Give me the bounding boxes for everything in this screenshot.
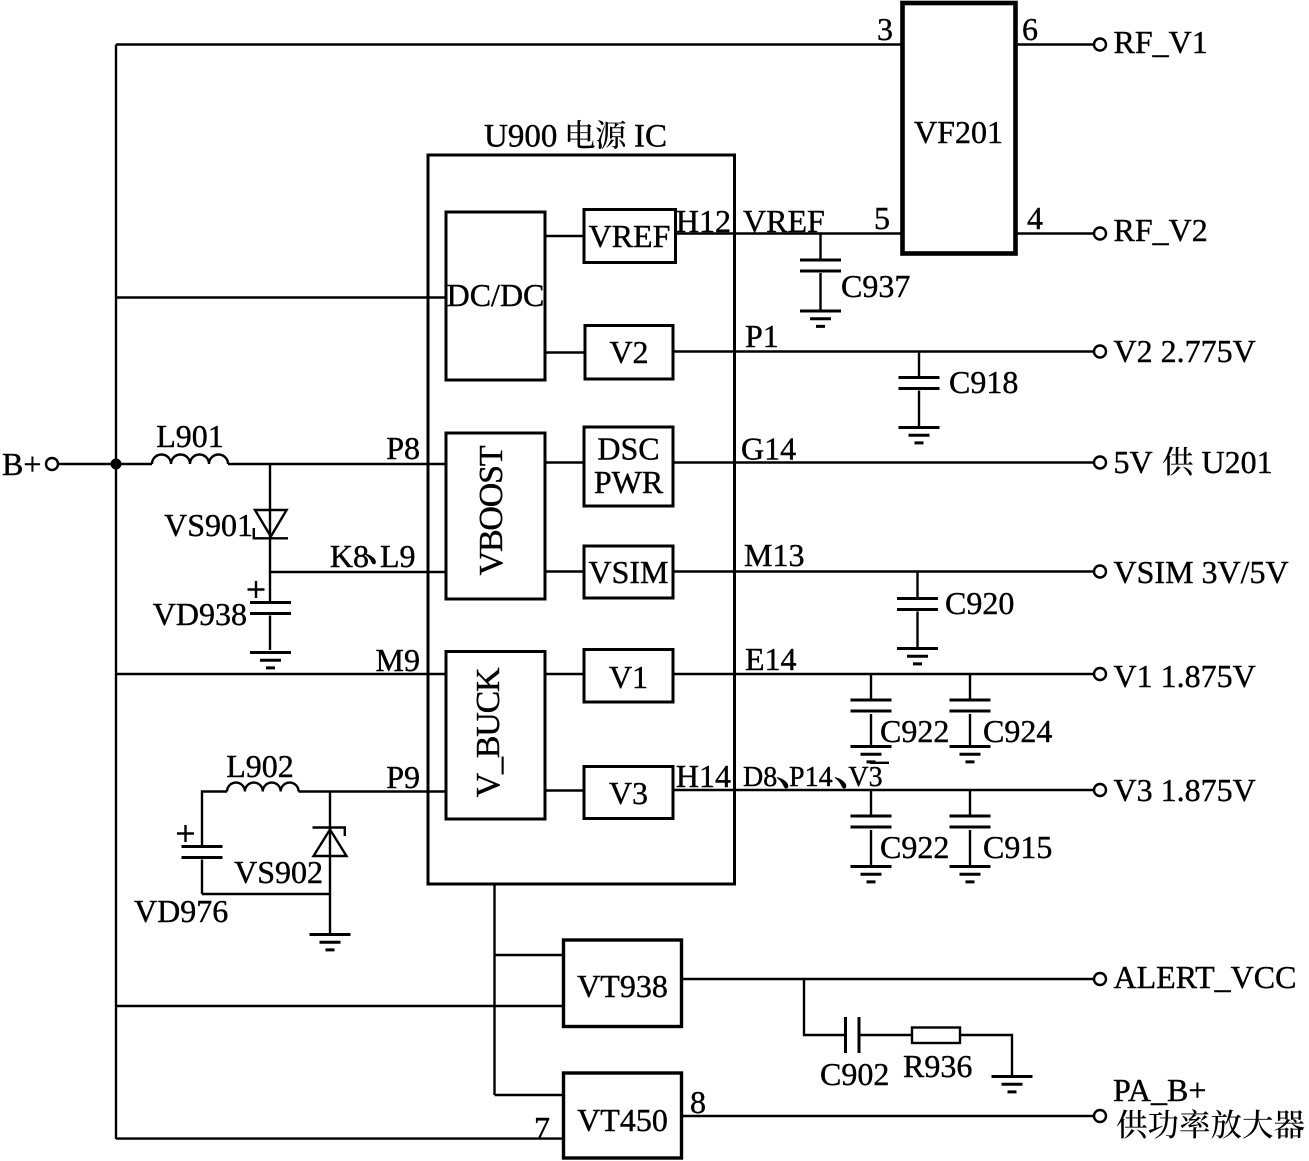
wire V3 to output H14 bbox=[673, 758, 1094, 794]
wire V_BUCK to V1 bbox=[545, 673, 584, 675]
transistor VT450 bbox=[564, 1073, 682, 1158]
svg-text:V2 2.775V: V2 2.775V bbox=[1114, 333, 1256, 369]
svg-text:DC/DC: DC/DC bbox=[447, 277, 545, 313]
ground C922 V3 bbox=[851, 867, 892, 882]
ground C924 bbox=[950, 747, 991, 762]
wire stem to VT450 pin bbox=[495, 1094, 564, 1096]
wire U900 bottom stem bbox=[493, 884, 495, 1095]
svg-text:VREF: VREF bbox=[743, 203, 825, 239]
block V2 bbox=[585, 326, 673, 380]
svg-text:DSC: DSC bbox=[597, 431, 659, 467]
ground R936 bbox=[992, 1077, 1033, 1092]
svg-text:V1: V1 bbox=[609, 659, 648, 695]
block DSC PWR bbox=[584, 427, 673, 506]
svg-text:U900: U900 bbox=[484, 119, 557, 155]
svg-text:VBOOST: VBOOST bbox=[473, 445, 510, 575]
svg-text:VS902: VS902 bbox=[234, 854, 323, 890]
svg-text:H14: H14 bbox=[676, 758, 731, 794]
svg-text:IC: IC bbox=[634, 119, 667, 155]
ground C937 bbox=[800, 311, 841, 326]
svg-text:E14: E14 bbox=[745, 641, 797, 677]
node V2 output bbox=[1094, 346, 1106, 358]
block V1 bbox=[584, 650, 673, 703]
wire bottom rail pin 7 bbox=[116, 1110, 563, 1146]
wire VBOOST to DSC PWR bbox=[545, 461, 584, 463]
wire DC/DC to VREF bbox=[545, 235, 584, 237]
svg-text:PWR: PWR bbox=[594, 464, 664, 500]
svg-text:M9: M9 bbox=[376, 642, 420, 678]
svg-text:V3: V3 bbox=[609, 775, 648, 811]
svg-text:V3: V3 bbox=[848, 762, 882, 793]
inductor L901 bbox=[152, 418, 228, 464]
capacitor C920 bbox=[897, 572, 1014, 648]
svg-text:VD976: VD976 bbox=[134, 893, 228, 929]
capacitor C918 bbox=[899, 352, 1019, 427]
svg-text:6: 6 bbox=[1022, 11, 1038, 47]
IC U900 power IC outline bbox=[428, 119, 735, 885]
svg-text:VREF: VREF bbox=[589, 218, 671, 254]
ground VD938 bbox=[250, 653, 291, 668]
node V3 output bbox=[1094, 784, 1106, 796]
node VSIM output bbox=[1094, 566, 1106, 578]
block DC/DC bbox=[446, 212, 545, 380]
svg-text:G14: G14 bbox=[741, 431, 796, 467]
svg-text:C937: C937 bbox=[841, 268, 910, 304]
wire pin M9 bbox=[116, 642, 446, 678]
wire C902 branch bbox=[804, 979, 844, 1035]
capacitor C937 bbox=[800, 234, 910, 310]
wire L902 left leg bbox=[202, 792, 227, 846]
capacitor VD938 (polarized) bbox=[153, 581, 291, 650]
wire pin P9 bbox=[299, 759, 446, 795]
diode VS901 bbox=[164, 507, 288, 543]
svg-text:PA_B+: PA_B+ bbox=[1113, 1072, 1206, 1108]
block VBOOST bbox=[446, 433, 545, 599]
wire main left vertical rail bbox=[115, 45, 117, 1140]
block VREF bbox=[584, 210, 676, 263]
wire top rail to VF201 pin 3 bbox=[116, 43, 902, 45]
svg-text:V2: V2 bbox=[609, 334, 648, 370]
svg-text:3: 3 bbox=[877, 11, 893, 47]
svg-text:D8: D8 bbox=[743, 762, 777, 793]
svg-text:U201: U201 bbox=[1202, 444, 1273, 480]
wire V_BUCK to V3 bbox=[545, 789, 584, 791]
svg-text:C918: C918 bbox=[949, 364, 1018, 400]
wire L901 to pin P8 bbox=[228, 430, 446, 466]
ground C918 bbox=[899, 428, 940, 443]
transistor VT938 bbox=[564, 940, 682, 1027]
svg-text:VSIM: VSIM bbox=[588, 554, 668, 590]
svg-text:7: 7 bbox=[534, 1110, 550, 1146]
block V_BUCK bbox=[446, 652, 545, 820]
wire VD976 bottom to VS902 bbox=[202, 893, 330, 895]
wire B+ to L901 bbox=[58, 463, 152, 465]
wire VS902 branch from P9 bbox=[329, 792, 331, 934]
wire left rail to VT938 pin b bbox=[116, 1005, 563, 1007]
svg-text:ALERT_VCC: ALERT_VCC bbox=[1114, 959, 1297, 995]
svg-text:B+: B+ bbox=[2, 446, 41, 482]
svg-text:V_BUCK: V_BUCK bbox=[470, 667, 507, 797]
wire V2 to output P1 bbox=[673, 318, 1094, 354]
wire V1 to output E14 bbox=[673, 641, 1094, 677]
svg-text:5: 5 bbox=[874, 200, 890, 236]
node 5V output bbox=[1094, 457, 1106, 469]
pin 4 wire bbox=[1016, 200, 1095, 236]
svg-text:M13: M13 bbox=[744, 537, 804, 573]
node B+ terminal bbox=[2, 446, 58, 482]
svg-text:C924: C924 bbox=[983, 713, 1052, 749]
ground C915 bbox=[950, 867, 991, 882]
svg-text:P1: P1 bbox=[745, 318, 779, 354]
svg-text:K8: K8 bbox=[330, 538, 369, 574]
svg-text:C902: C902 bbox=[820, 1056, 889, 1092]
svg-text:RF_V1: RF_V1 bbox=[1114, 24, 1208, 60]
capacitor C924 bbox=[950, 674, 1053, 749]
svg-text:C915: C915 bbox=[983, 829, 1052, 865]
svg-text:P14: P14 bbox=[789, 762, 833, 793]
wire C902 to R936 bbox=[861, 1034, 913, 1036]
svg-text:VS901: VS901 bbox=[164, 507, 253, 543]
svg-text:P9: P9 bbox=[386, 759, 420, 795]
svg-text:C922: C922 bbox=[880, 713, 949, 749]
capacitor C922 (V1 rail) bbox=[851, 674, 950, 749]
wire DSC PWR to output G14 bbox=[673, 431, 1094, 467]
svg-text:4: 4 bbox=[1027, 200, 1043, 236]
ground VS902 bbox=[310, 935, 351, 950]
block V3 bbox=[584, 767, 673, 819]
wire VT938 to ALERT_VCC bbox=[682, 978, 1094, 980]
ground C922 V1 bbox=[851, 747, 892, 762]
wire VBOOST to VSIM bbox=[545, 570, 584, 572]
node PA_B+ bbox=[1094, 1110, 1106, 1122]
svg-text:VD938: VD938 bbox=[153, 596, 247, 632]
wire VS901 branch bbox=[269, 464, 271, 572]
svg-text:C920: C920 bbox=[945, 585, 1014, 621]
svg-text:L901: L901 bbox=[156, 418, 224, 454]
resistor R936 bbox=[903, 1028, 972, 1085]
wire R936 to ground bbox=[960, 1035, 1012, 1075]
svg-text:P8: P8 bbox=[386, 430, 420, 466]
svg-text:8: 8 bbox=[690, 1084, 706, 1120]
pin 8 wire bbox=[682, 1084, 1094, 1120]
svg-text:V1 1.875V: V1 1.875V bbox=[1114, 658, 1256, 694]
junction B+ rail bbox=[111, 459, 122, 470]
svg-text:H12: H12 bbox=[676, 203, 731, 239]
ground C920 bbox=[897, 649, 938, 664]
svg-text:RF_V2: RF_V2 bbox=[1114, 212, 1208, 248]
node V1 output bbox=[1094, 668, 1106, 680]
diode VS902 bbox=[234, 828, 346, 891]
wire DC/DC to V2 bbox=[545, 351, 585, 353]
capacitor VD976 (polarized) bbox=[134, 825, 228, 929]
node ALERT_VCC bbox=[1094, 973, 1106, 985]
capacitor C915 bbox=[950, 790, 1053, 865]
pin 6 wire bbox=[1016, 11, 1095, 47]
wire VREF to VF201 pin 5 (H12 VREF net) bbox=[676, 203, 903, 239]
transistor VF201 bbox=[903, 3, 1016, 254]
capacitor C922 (V3 rail) bbox=[851, 790, 950, 865]
svg-text:VSIM 3V/5V: VSIM 3V/5V bbox=[1114, 554, 1289, 590]
wire VSIM to output M13 bbox=[673, 537, 1094, 573]
block VSIM bbox=[584, 546, 673, 598]
svg-text:C922: C922 bbox=[880, 829, 949, 865]
wire VD938 branch bbox=[269, 572, 271, 601]
wire DC/DC input bbox=[116, 296, 446, 298]
node RF_V1 bbox=[1094, 39, 1106, 51]
wire pin K8,L9 bbox=[270, 538, 446, 574]
inductor L902 bbox=[226, 748, 298, 792]
svg-text:VT938: VT938 bbox=[577, 968, 668, 1004]
svg-text:R936: R936 bbox=[903, 1048, 972, 1084]
wire stem to VT938 pin a bbox=[495, 954, 564, 956]
svg-text:V3 1.875V: V3 1.875V bbox=[1114, 772, 1256, 808]
svg-text:VF201: VF201 bbox=[914, 114, 1003, 150]
svg-text:L9: L9 bbox=[380, 538, 416, 574]
node RF_V2 bbox=[1094, 228, 1106, 240]
capacitor C902 bbox=[820, 1017, 889, 1092]
svg-text:VT450: VT450 bbox=[577, 1102, 668, 1138]
svg-text:5V: 5V bbox=[1114, 444, 1153, 480]
svg-text:L902: L902 bbox=[226, 748, 294, 784]
